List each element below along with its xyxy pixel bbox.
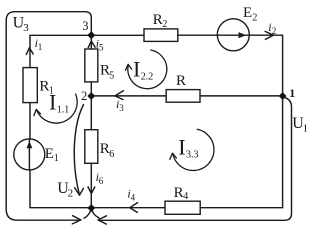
wire top inner horizontal (corner to node 3) — [30, 35, 91, 67]
svg-text:3.3: 3.3 — [186, 150, 199, 161]
voltage arrow U2 — [74, 105, 83, 195]
wire spine node3-R5 — [90, 35, 92, 49]
resistor R — [166, 90, 200, 103]
svg-text:2: 2 — [162, 19, 167, 30]
current arrow i3 — [115, 91, 124, 100]
wire node 3 to R2 — [91, 34, 144, 36]
svg-text:2: 2 — [81, 89, 87, 103]
wire R to node 1 — [200, 95, 283, 97]
current arrow i5 — [88, 41, 95, 48]
svg-text:2: 2 — [252, 12, 257, 23]
bottom node right leg — [92, 209, 99, 218]
svg-text:I: I — [49, 90, 56, 115]
svg-text:5: 5 — [109, 70, 114, 81]
resistor R4 — [165, 201, 200, 214]
wire node 2 to R6 — [90, 96, 92, 130]
wire R2 to E2 — [178, 34, 218, 36]
svg-text:3: 3 — [82, 19, 88, 33]
svg-text:I: I — [178, 135, 185, 160]
svg-text:6: 6 — [99, 176, 104, 186]
svg-text:1: 1 — [289, 86, 295, 100]
bottom node — [88, 205, 95, 212]
svg-text:2.2: 2.2 — [141, 72, 154, 83]
loop arrow I2.2 — [128, 50, 167, 89]
node 1 — [279, 93, 286, 100]
svg-text:1: 1 — [54, 153, 59, 164]
loop arrow I3.3 — [173, 129, 214, 170]
current arrow i4 — [130, 203, 138, 213]
svg-text:1.1: 1.1 — [57, 105, 70, 116]
wire R5 bottom to node 2 — [90, 82, 92, 96]
svg-text:1: 1 — [303, 122, 307, 134]
svg-text:R: R — [176, 73, 186, 89]
node 2 — [88, 93, 95, 100]
svg-text:4: 4 — [131, 192, 136, 202]
svg-text:2: 2 — [272, 26, 277, 36]
wire node 1 down right side — [282, 96, 284, 208]
svg-text:R: R — [174, 185, 184, 201]
resistor R1 — [23, 68, 37, 103]
current arrow i2 — [265, 31, 273, 39]
svg-text:3: 3 — [119, 103, 124, 113]
current arrow i1 — [26, 48, 33, 55]
svg-text:5: 5 — [99, 43, 104, 53]
wire middle: node 2 to R — [91, 95, 166, 97]
U3 arrowhead — [72, 216, 81, 224]
U3 label — [13, 15, 30, 35]
bottom node left leg — [84, 209, 91, 218]
resistor R6 — [85, 130, 98, 164]
svg-text:I: I — [133, 57, 140, 82]
source E1 — [14, 139, 45, 170]
svg-text:6: 6 — [109, 149, 114, 160]
wire R4 to bottom right corner — [200, 207, 282, 209]
resistor R2 — [144, 29, 178, 42]
wire U3 outer loop from node 3 over top-left to bottom — [6, 12, 91, 221]
svg-text:3: 3 — [23, 22, 29, 34]
svg-text:E: E — [45, 146, 54, 162]
source E2 — [217, 19, 249, 51]
U1 label — [292, 115, 308, 134]
U1 arrowhead — [98, 216, 106, 224]
wire bottom inner (left corner to right corner) — [30, 170, 165, 208]
node 3 — [88, 32, 95, 39]
svg-text:E: E — [243, 5, 252, 21]
svg-text:R: R — [153, 12, 163, 28]
current arrow i6 — [88, 187, 95, 194]
svg-text:1: 1 — [38, 42, 43, 52]
loop arrow I1.1 — [37, 94, 78, 123]
resistor R5 — [85, 49, 98, 82]
wire R6 bottom to bottom node — [90, 163, 92, 207]
svg-text:2: 2 — [68, 187, 74, 199]
svg-text:4: 4 — [183, 191, 188, 202]
wire U1 outer loop from node 1 down right side to bottom — [99, 98, 292, 221]
wire E2 to top-right corner down to node 1 — [249, 35, 282, 96]
wire R1 bottom to E1 — [29, 103, 31, 139]
